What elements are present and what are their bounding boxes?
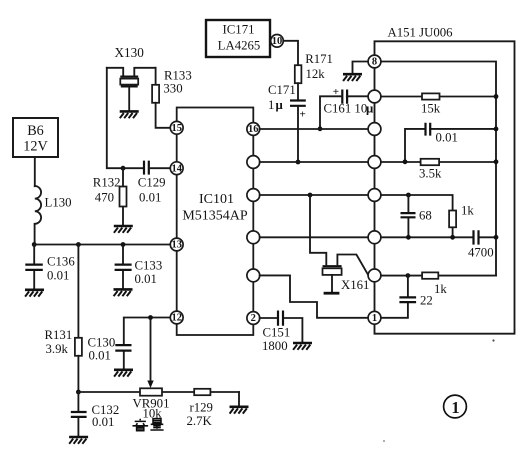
svg-text:1k: 1k — [461, 204, 474, 218]
pin row B left — [247, 156, 260, 169]
wire row C — [260, 194, 368, 196]
pin 13 — [170, 238, 183, 251]
node C161 row A — [318, 126, 323, 131]
pin 10 — [271, 35, 284, 48]
resistor 1k row E — [422, 272, 447, 296]
svg-text:0.01: 0.01 — [139, 191, 161, 205]
svg-text:B6: B6 — [27, 123, 44, 139]
svg-text:R133: R133 — [164, 69, 192, 83]
svg-text:R171: R171 — [305, 52, 333, 66]
resistor R133 330 — [152, 69, 192, 103]
resistor 3.5k — [419, 159, 442, 181]
svg-text:12: 12 — [171, 313, 182, 324]
svg-text:X161: X161 — [341, 278, 369, 292]
svg-text:1: 1 — [451, 398, 459, 417]
ground C151 — [293, 343, 312, 350]
svg-text:+: + — [333, 86, 339, 98]
node C133 top — [121, 242, 126, 247]
svg-text:C129: C129 — [138, 176, 166, 190]
wire R171 to C171 — [297, 83, 299, 100]
node R132 top — [121, 166, 126, 171]
capacitor 22 — [381, 276, 433, 318]
capacitor C133 — [115, 245, 163, 289]
pin 12 — [170, 311, 183, 324]
svg-text:3.5k: 3.5k — [419, 167, 442, 181]
pin 15 — [170, 121, 183, 134]
resistor r129 2.7K — [187, 389, 213, 428]
ground pin 8 — [343, 62, 368, 82]
IC IC101 M51354AP box — [177, 108, 254, 336]
pin row2 right — [368, 90, 381, 103]
pin row A right — [368, 123, 381, 136]
circled figure 1 mark — [444, 395, 467, 418]
svg-text:r129: r129 — [190, 401, 213, 415]
ground C136 — [25, 290, 44, 297]
pin 14 — [170, 162, 183, 175]
svg-text:1: 1 — [372, 313, 377, 324]
node row12 wiper junction — [148, 315, 153, 320]
wire X130 left rail down to row 14 — [107, 68, 144, 168]
crystal X161 — [310, 195, 369, 293]
wire X130 right rail to R133 — [155, 68, 157, 85]
svg-text:0.01: 0.01 — [436, 131, 458, 145]
svg-text:L130: L130 — [45, 196, 72, 210]
pin row C left — [247, 189, 260, 202]
module A151 JU006 — [375, 26, 515, 334]
battery B6 12V — [13, 118, 58, 157]
wire pin10 to R171 — [283, 41, 298, 65]
node 0.01 right — [494, 126, 499, 131]
svg-text:IC171: IC171 — [223, 23, 255, 37]
svg-text:C161 10: C161 10 — [324, 102, 368, 116]
svg-text:14: 14 — [171, 163, 182, 174]
capacitor 4700 — [468, 230, 494, 259]
svg-text:X130: X130 — [115, 45, 145, 60]
svg-text:0.01: 0.01 — [89, 349, 111, 363]
wire row13 to R131 — [77, 245, 79, 338]
capacitor C130 — [88, 336, 132, 369]
speck bottom — [383, 440, 385, 442]
svg-text:R131: R131 — [45, 328, 73, 342]
svg-text:+: + — [300, 109, 306, 121]
svg-text:0.01: 0.01 — [92, 415, 114, 429]
inductor L130 — [35, 186, 72, 224]
capacitor C129 — [138, 161, 171, 205]
pin 1 — [368, 311, 381, 324]
svg-text:330: 330 — [163, 82, 182, 96]
pin row B right — [368, 156, 381, 169]
svg-text:2.7K: 2.7K — [187, 414, 213, 428]
svg-text:A151 JU006: A151 JU006 — [388, 26, 454, 40]
node 22 top — [406, 273, 411, 278]
wire row A pin16 to A151 — [260, 128, 368, 130]
ground C130 — [114, 370, 133, 377]
wire r129 to ground — [238, 392, 240, 406]
svg-text:1k: 1k — [434, 282, 447, 296]
wire row C right with 1k branch — [381, 195, 453, 237]
resistor R131 3.9k — [45, 328, 82, 356]
capacitor C136 — [25, 245, 75, 289]
svg-text:C136: C136 — [47, 255, 75, 269]
node 4700 right — [494, 235, 499, 240]
node row13 left junction — [32, 242, 37, 247]
pin row E right — [368, 269, 381, 282]
wire row D — [260, 236, 368, 238]
pin row D right — [368, 231, 381, 244]
capacitor 0.01 — [426, 123, 458, 145]
wire row B — [260, 161, 368, 163]
svg-text:C133: C133 — [135, 259, 163, 273]
svg-text:1800: 1800 — [262, 339, 288, 353]
resistor R132 470 — [93, 168, 127, 225]
resistor 1k vertical — [449, 204, 474, 228]
wire L130 to row13 node — [34, 224, 36, 245]
wire row D right 4700 — [381, 236, 496, 238]
label volume CJK — [133, 419, 164, 431]
svg-text:12k: 12k — [306, 67, 326, 81]
node row2 right — [494, 94, 499, 99]
svg-text:3.9k: 3.9k — [46, 342, 69, 356]
svg-text:C151: C151 — [263, 326, 291, 340]
wire row 12 pin12 to C130 corner — [124, 318, 171, 346]
wire row 13 — [34, 244, 170, 246]
resistor 15k — [421, 93, 441, 115]
capacitor C171 1u — [268, 83, 306, 162]
pin 2 — [247, 312, 260, 325]
pin 8 — [368, 55, 381, 68]
svg-text:C130: C130 — [88, 336, 116, 350]
svg-text:16: 16 — [248, 124, 259, 135]
svg-text:μ: μ — [366, 102, 374, 116]
svg-text:22: 22 — [420, 294, 433, 308]
node 68 bottom — [406, 235, 411, 240]
svg-text:13: 13 — [171, 240, 182, 251]
svg-text:M51354AP: M51354AP — [182, 209, 248, 224]
capacitor C151 1800 — [260, 311, 303, 354]
potentiometer VR901 10k — [133, 388, 170, 420]
pin row E left — [247, 269, 260, 282]
ground C132 — [69, 437, 88, 444]
capacitor C132 — [71, 392, 119, 436]
wire 0.01 branch — [405, 129, 496, 162]
wire R133 to pin 15 — [156, 103, 171, 128]
svg-text:10: 10 — [272, 36, 283, 47]
IC171 LA4265 box — [206, 20, 270, 57]
wire R131 to bottom node — [77, 356, 79, 392]
wire staircase row E to pin 1 — [260, 275, 369, 317]
ground C133 — [114, 289, 133, 296]
wire row B right — [381, 161, 496, 163]
svg-text:68: 68 — [419, 209, 432, 223]
wire row E right 1k — [381, 275, 496, 277]
pin 16 — [247, 123, 260, 136]
svg-text:470: 470 — [95, 191, 114, 205]
node 1k bottom — [450, 235, 455, 240]
svg-text:LA4265: LA4265 — [218, 39, 261, 53]
node 3.5k left — [403, 159, 408, 164]
wire B6 to L130 — [34, 157, 36, 186]
node C171 row B — [296, 160, 301, 165]
node bottom row — [76, 390, 81, 395]
svg-text:15: 15 — [171, 123, 182, 134]
svg-text:12V: 12V — [23, 139, 48, 155]
pin row C right — [368, 189, 381, 202]
capacitor 68 — [401, 195, 432, 237]
svg-text:8: 8 — [372, 57, 377, 68]
wire bottom row — [78, 391, 239, 393]
ground R132 — [114, 226, 133, 233]
svg-text:μ: μ — [276, 98, 284, 112]
wiper arrow VR901 — [147, 318, 153, 389]
svg-text:1: 1 — [268, 98, 274, 112]
svg-text:0.01: 0.01 — [47, 269, 69, 283]
crystal X130 — [107, 45, 156, 110]
svg-text:4700: 4700 — [468, 246, 494, 260]
resistor R171 12k — [295, 52, 333, 83]
node 68 top — [406, 193, 411, 198]
node X161 top — [308, 193, 313, 198]
svg-text:15k: 15k — [421, 102, 441, 116]
svg-text:C171: C171 — [268, 83, 296, 97]
svg-text:IC101: IC101 — [199, 192, 234, 207]
speck near module edge — [492, 339, 494, 341]
ground r129 — [230, 407, 249, 414]
svg-text:0.01: 0.01 — [135, 272, 157, 286]
svg-text:2: 2 — [251, 313, 256, 324]
ground X130 — [120, 111, 139, 118]
node row B right end — [494, 159, 499, 164]
capacitor C161 10u electrolytic — [320, 86, 374, 129]
node R131 top — [76, 242, 81, 247]
pin row D left — [247, 231, 260, 244]
svg-text:R132: R132 — [93, 176, 121, 190]
wire row2 15k — [381, 96, 496, 98]
